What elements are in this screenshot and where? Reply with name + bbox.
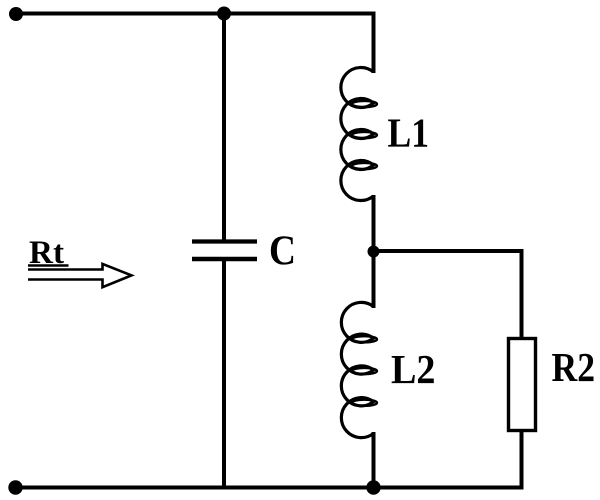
inductor L2 coil [341, 302, 373, 437]
inductor L2 crossover loop 3 [352, 400, 377, 406]
wire: bottom rail [10, 486, 524, 490]
resistor R2 body [509, 339, 536, 431]
Rt underline [28, 264, 69, 267]
wire: R2 lower lead [520, 431, 524, 490]
inductor L1 coil [341, 67, 374, 200]
wire: L1 to middle node [372, 195, 376, 254]
terminal dot top-left [9, 7, 23, 21]
inductor L1 crossover loop 2 [352, 132, 377, 138]
capacitor C top plate [192, 239, 257, 243]
junction dot top (capacitor tap) [217, 7, 231, 21]
inductor L2 crossover loop 2 [352, 368, 377, 374]
svg-text:L1: L1 [388, 110, 430, 156]
wire: capacitor lower lead [222, 260, 226, 490]
wire: top-right vertical drop to L1 [372, 12, 376, 74]
inductor L2 crossover loop 1 [352, 336, 377, 342]
wire: R2 upper lead [520, 249, 524, 340]
capacitor C bottom plate [192, 257, 257, 262]
inductor L1 crossover loop 3 [352, 163, 377, 169]
inductor L1 crossover loop 1 [352, 101, 377, 107]
node dot middle [368, 246, 380, 258]
junction dot bottom (L2 tap) [366, 480, 380, 494]
arrow (hollow, pointing right) [28, 264, 132, 287]
wire: L2 to bottom rail [372, 432, 376, 489]
terminal dot bottom-left [8, 480, 22, 494]
svg-text:C: C [269, 229, 296, 275]
svg-text:R2: R2 [552, 344, 596, 390]
wire: node to L2 [372, 251, 376, 308]
svg-text:L2: L2 [391, 346, 436, 392]
wire: top rail [10, 12, 376, 16]
wire: capacitor upper lead [222, 14, 226, 241]
wire: middle rail to R2 branch [374, 249, 524, 253]
